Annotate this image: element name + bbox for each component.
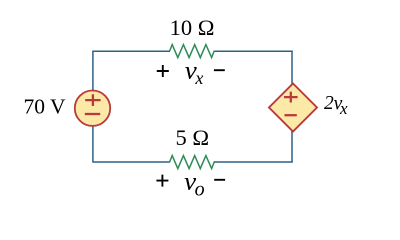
- wire top-right horizontal: [214, 50, 293, 52]
- svg-text:x: x: [194, 68, 203, 88]
- wire right vertical upper: [291, 51, 293, 85]
- resistor R2 minus polarity: [214, 179, 225, 181]
- svg-text:5 Ω: 5 Ω: [175, 125, 209, 150]
- resistor R1 plus polarity: [157, 65, 169, 77]
- resistor R2 5 ohm zigzag: [170, 156, 215, 169]
- wire right vertical lower: [291, 131, 293, 163]
- dependent source U1 minus sign: [285, 114, 297, 116]
- wire bottom-right horizontal: [214, 161, 293, 163]
- voltage source V1 minus sign: [85, 113, 100, 115]
- svg-text:70 V: 70 V: [24, 95, 66, 119]
- wire top-left horizontal: [93, 50, 170, 52]
- voltage source V1 70V circle: [75, 91, 110, 126]
- resistor R2 plus polarity: [156, 175, 168, 187]
- svg-text:x: x: [339, 99, 348, 118]
- wire bottom-left horizontal: [93, 161, 170, 163]
- svg-text:2: 2: [324, 93, 334, 114]
- resistor R1 10 ohm zigzag: [170, 45, 215, 58]
- svg-text:o: o: [195, 179, 205, 200]
- dependent source U1 plus sign: [284, 92, 298, 103]
- resistor R1 minus polarity: [214, 69, 225, 71]
- svg-text:10 Ω: 10 Ω: [170, 15, 215, 40]
- wire left vertical upper: [92, 51, 94, 92]
- wire left vertical lower: [92, 126, 94, 163]
- dependent source U1 diamond: [269, 84, 317, 132]
- voltage source V1 plus sign: [85, 94, 100, 106]
